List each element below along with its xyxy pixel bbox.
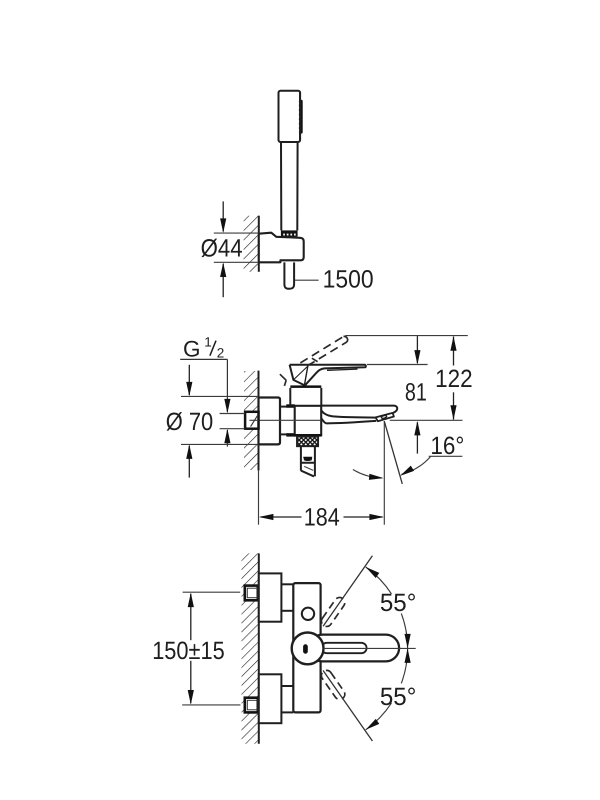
- cartridge collar: [290, 388, 321, 406]
- -55 extension line: [323, 671, 372, 742]
- shower handle: [281, 142, 298, 230]
- lower supply square: [245, 698, 258, 713]
- 16 degree slant line: [384, 421, 402, 484]
- handle connection nut: [281, 230, 298, 236]
- aerator: [376, 413, 394, 421]
- svg-text:55°: 55°: [380, 683, 417, 711]
- vertical reference line from aerator: [383, 421, 385, 525]
- spray face band: [299, 100, 303, 134]
- mixer body: [295, 406, 322, 435]
- svg-text:2: 2: [217, 346, 225, 361]
- G1/2 square union on wall: [245, 412, 258, 429]
- dashed raised lever: [280, 336, 348, 385]
- wall extension line down to 184 dim: [258, 470, 260, 524]
- wall line (top view): [258, 216, 260, 272]
- extension line at solid lever top (81 top): [367, 364, 428, 366]
- body mid line: [249, 419, 321, 421]
- spout: [321, 406, 397, 413]
- upper escutcheon (plan): [259, 573, 282, 621]
- neck between escutcheon and body: [280, 406, 295, 408]
- svg-text:G: G: [183, 336, 201, 361]
- svg-text:55°: 55°: [380, 589, 417, 617]
- dimension Ø44 arrow lines: [222, 201, 224, 231]
- svg-text:Ø44: Ø44: [201, 235, 243, 263]
- screw hole: [302, 608, 314, 620]
- cartridge joint band: [290, 385, 321, 388]
- swing arc upper: [366, 567, 392, 594]
- lever arm (plan, solid): [309, 635, 399, 662]
- lever slot detail: [322, 643, 367, 653]
- wall line (plan): [258, 553, 260, 743]
- upper neck (plan): [281, 583, 293, 585]
- dimension 150±15 extension lines: [183, 591, 241, 593]
- dashed lever position +55: [319, 595, 346, 628]
- 16 degree arcs and arrows: [402, 457, 431, 475]
- svg-text:122: 122: [435, 365, 473, 393]
- lower escutcheon (plan): [259, 674, 282, 723]
- wall hatch band (plan): [242, 553, 259, 743]
- svg-text:184: 184: [304, 504, 340, 532]
- wall line (middle view): [258, 371, 260, 471]
- lever handle (solid): [290, 364, 366, 386]
- extension line at spout outlet level: [390, 419, 463, 421]
- body bottom thick edge: [294, 434, 321, 437]
- seal marks: [286, 404, 295, 407]
- pivot circle: [292, 633, 324, 665]
- +55 extension line: [323, 556, 372, 627]
- svg-text:1500: 1500: [323, 266, 374, 294]
- G1/2 leader underline and arrow: [180, 358, 227, 360]
- wall hatch (middle view): [244, 371, 258, 470]
- dashed lever position -55: [319, 668, 346, 701]
- knurled diverter ring: [297, 437, 318, 447]
- pivot black slot: [303, 644, 308, 653]
- leader line to 1500: [295, 279, 319, 281]
- shower head: [279, 91, 301, 142]
- diverter outlet: [301, 446, 315, 476]
- shower hose: [284, 262, 294, 288]
- dimension 122: [453, 337, 455, 366]
- lower neck (plan): [281, 685, 293, 687]
- wall hatch (top view): [244, 216, 259, 272]
- upper supply square: [245, 586, 258, 601]
- svg-text:1: 1: [204, 334, 212, 349]
- escutcheon (side view): [259, 398, 281, 445]
- dimension 184: [261, 516, 302, 518]
- svg-text:16°: 16°: [430, 432, 464, 460]
- dimension Ø44 extension lines: [214, 232, 259, 234]
- svg-text:81: 81: [405, 378, 427, 406]
- centerline of lever: [324, 647, 416, 649]
- shower holder: [259, 233, 304, 263]
- extension line from dashed lever tip (122 top): [345, 335, 468, 337]
- svg-text:150±15: 150±15: [152, 637, 225, 665]
- svg-text:Ø 70: Ø 70: [166, 408, 214, 436]
- dimension 150±15 arrow lines: [190, 594, 192, 640]
- dimension 81: [416, 336, 418, 363]
- dimension Ø70: [181, 395, 258, 397]
- body (plan): [293, 583, 320, 712]
- lever crease lines: [305, 366, 308, 385]
